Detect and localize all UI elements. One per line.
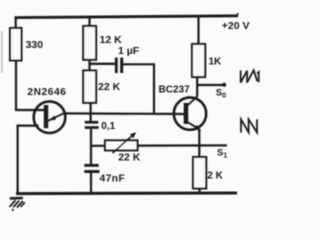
svg-text:12 K: 12 K [100, 34, 123, 46]
resistor R2 12K [83, 26, 122, 60]
svg-text:BC237: BC237 [159, 84, 191, 95]
wire 1uF to BC237 base [123, 64, 154, 114]
wire top rail end tick [237, 13, 238, 16]
wire 2K to ground rail [198, 189, 200, 194]
resistor R6 2K [193, 157, 224, 189]
wire junction to 1uF [89, 63, 116, 65]
capacitor C3 47nF [84, 164, 125, 185]
wire 330 to UJT base2 [16, 61, 44, 111]
wire 12K top lead [88, 17, 90, 26]
wire 22K bottom to node [89, 103, 91, 121]
transistor Q1 2N2646 (UJT) [27, 87, 66, 133]
wire top +20V rail [15, 16, 239, 18]
capacitor C1 1uF [115, 45, 140, 73]
capacitor C2 0,1 [85, 121, 116, 132]
wire emitter down to 2K [198, 130, 200, 157]
resistor R1 330 [10, 28, 43, 61]
scan artifact left edge [1, 31, 3, 73]
ground [10, 198, 25, 211]
wire pot to S1 stub [138, 144, 228, 146]
wire 1K bottom to collector [196, 77, 198, 97]
svg-text:1 µF: 1 µF [118, 45, 140, 57]
resistor R5 1K [192, 44, 222, 77]
wire bottom ground rail [16, 192, 237, 196]
sawtooth waveform S1 [241, 119, 257, 132]
svg-text:0,1: 0,1 [101, 121, 115, 132]
potentiometer R4 22K [105, 132, 141, 163]
resistor R3 22K [83, 71, 120, 103]
wire 0,1 down to pot node [91, 129, 105, 146]
svg-text:+20 V: +20 V [222, 20, 250, 32]
svg-text:330: 330 [26, 39, 44, 51]
wire emitter node to BC237 base [64, 112, 184, 115]
wire UJT base1 to ground [18, 126, 39, 194]
svg-text:22 K: 22 K [118, 151, 141, 163]
wire 1K top lead [197, 16, 199, 44]
svg-text:47nF: 47nF [100, 174, 126, 185]
wire 47nF to ground rail [90, 173, 92, 193]
sawtooth waveform S0 [241, 70, 258, 82]
wire S0 stub [197, 84, 223, 86]
svg-text:2 K: 2 K [207, 171, 223, 182]
wire node down to 47nF [90, 146, 92, 164]
wire 330 top lead [15, 18, 17, 28]
svg-text:22 K: 22 K [98, 81, 121, 93]
node S0 dot [222, 83, 226, 87]
svg-text:2N2646: 2N2646 [27, 87, 66, 98]
wire 12K/22K junction [88, 60, 90, 71]
transistor Q2 BC237 [159, 84, 207, 130]
svg-text:1K: 1K [209, 57, 223, 68]
